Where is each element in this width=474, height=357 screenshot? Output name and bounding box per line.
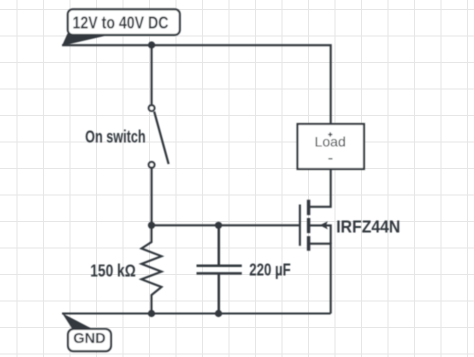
svg-text:IRFZ44N: IRFZ44N <box>336 216 400 236</box>
svg-text:12V to 40V DC: 12V to 40V DC <box>73 13 169 33</box>
svg-text:220 µF: 220 µF <box>249 260 291 280</box>
svg-text:150 kΩ: 150 kΩ <box>90 260 136 280</box>
svg-text:GND: GND <box>73 331 106 347</box>
svg-text:On switch: On switch <box>85 126 146 146</box>
